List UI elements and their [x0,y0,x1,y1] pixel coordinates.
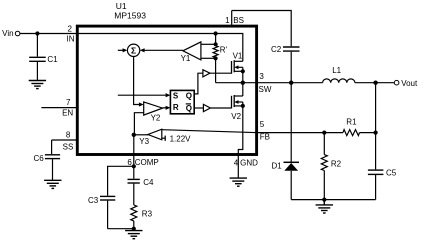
svg-text:C1: C1 [47,55,58,64]
pin 8 SS [52,130,77,154]
svg-text:S: S [173,91,179,100]
wire R' bottom down to SW rail [215,58,217,83]
node junction Y3 output/COMP [132,133,136,137]
wire Vin to IN pin [20,33,77,35]
node junction IN/R' [214,31,218,35]
wire summer output to Y2 [134,57,139,105]
svg-text:3: 3 [259,72,264,81]
op-amp Y1 [181,42,201,63]
wire V1 source to SW [242,67,244,82]
svg-text:SW: SW [259,85,272,94]
capacitor C6 [34,154,61,180]
wire ramp stub into summer [118,49,124,51]
capacitor C2 [271,45,300,83]
svg-text:Y1: Y1 [181,54,191,63]
pin 7 EN [41,98,77,118]
wire Y3 output [134,134,148,136]
svg-text:V2: V2 [231,112,241,121]
wire Y1 input top [201,43,216,45]
flip-flop U1 latch [170,90,194,113]
pin 3 SW [259,72,272,94]
resistor R' [213,46,227,58]
buffer V2 gate driver [203,104,210,111]
node junction V1 source [241,69,245,73]
inductor L1 [323,66,355,83]
svg-text:MP1593: MP1593 [114,10,146,20]
wire Y2 bottom input from Y3 [134,113,143,135]
wire V2 drain to SW [242,83,244,96]
svg-text:C5: C5 [386,168,397,177]
svg-text:4: 4 [234,158,239,167]
wire driver to V1 gate [210,72,232,74]
wire IN rail inside box to V1 drain [78,34,243,62]
wire V2 source to GND pin [238,102,243,178]
wire S input of flip-flop [118,94,166,96]
node junction SW internal [241,81,245,85]
svg-text:C4: C4 [143,178,154,187]
op-amp Y2 [144,102,163,122]
node junction R3/C3 bottom [132,227,136,231]
svg-text:COMP: COMP [135,158,159,167]
svg-text:C3: C3 [88,196,99,205]
svg-text:IN: IN [67,35,75,44]
svg-text:R3: R3 [142,210,153,219]
svg-text:V1: V1 [233,51,243,60]
svg-text:R: R [173,103,179,112]
svg-text:1: 1 [225,16,230,25]
svg-text:EN: EN [62,109,73,118]
wire internal SW rail [216,82,256,84]
svg-text:Σ: Σ [131,45,136,55]
node junction SW/C2/D1 [289,81,293,85]
wire 1.22V reference [162,135,191,144]
wire COMP to C3 branch [108,166,134,195]
svg-text:FB: FB [260,133,270,142]
wire Y2 output to R input [163,107,166,109]
node junction V2 source [241,104,245,108]
wire Q-bar output to V2 driver [194,107,203,109]
svg-text:Vin: Vin [2,29,13,38]
svg-text:C6: C6 [34,154,45,163]
capacitor C1 [29,34,58,81]
svg-text:Vout: Vout [401,79,418,88]
svg-text:Q: Q [186,104,192,113]
op-amp U1 box MP1593 [77,1,256,155]
pin 5 FB [260,120,270,142]
ground (output rail) [316,200,333,213]
node summing junction [127,44,139,56]
pin 1 BS [225,11,244,27]
wire FB pin to R1 [256,132,343,134]
svg-text:L1: L1 [332,66,341,75]
node junction R1/C5 [374,131,378,135]
svg-text:SS: SS [63,143,74,152]
node junction ground rail [322,198,326,202]
pin 4 GND [234,158,258,167]
svg-text:R': R' [220,46,228,55]
node junction Vout [373,81,377,85]
wire COMP vertical [133,135,135,167]
wire IN to R' [215,34,217,46]
wire C3 bottom to COMP ground [108,228,134,230]
node junction COMP [132,164,136,168]
wire L1 to Vout [355,82,395,84]
svg-text:R2: R2 [331,159,342,168]
wire Y1 output to summer [144,49,183,51]
node junction R' top / Y1 input [214,42,218,46]
wire output ground rail [291,199,375,201]
transistor V1 [232,51,243,73]
capacitor C3 [88,196,115,229]
svg-text:R1: R1 [346,117,357,126]
svg-text:1.22V: 1.22V [170,135,192,144]
wire R1 to Vout node [360,132,376,134]
wire Q output to V1 driver [194,73,203,94]
pin 6 COMP [127,158,158,167]
svg-text:BS: BS [233,16,244,25]
node Vout terminal [394,79,418,88]
resistor R2 [321,133,341,200]
node junction R' bottom / Y1 input [214,56,218,60]
wire driver to V2 gate [210,107,231,109]
buffer V1 gate driver [203,70,210,77]
svg-text:5: 5 [260,120,265,129]
capacitor C5 [368,133,397,200]
resistor R1 [343,117,360,135]
svg-text:7: 7 [66,98,71,107]
wire FB internal to Y3 [162,130,257,133]
pin 2 IN label [67,24,75,43]
svg-text:Q: Q [186,91,192,100]
transistor V2 [231,95,243,121]
svg-text:GND: GND [240,158,258,167]
svg-text:2: 2 [68,24,73,33]
node junction Vin/C1 [35,31,39,35]
wire SW pin to L1 [256,82,323,84]
svg-text:D1: D1 [272,161,283,170]
wire Vout down to FB divider [375,83,377,133]
ground (GND pin) [230,178,247,186]
op-amp Y3 [139,129,162,146]
wire BS to C2 top [232,11,292,47]
ground (C1) [29,81,46,89]
resistor R3 [131,205,153,229]
capacitor C4 [128,166,154,205]
ground (COMP network) [125,229,142,239]
node junction FB/R2 [322,131,326,135]
ground (C6) [44,180,61,188]
diode D1 [272,83,300,200]
svg-text:Y3: Y3 [139,137,149,146]
svg-text:8: 8 [66,130,71,139]
svg-text:Y2: Y2 [151,113,161,122]
wire Y1 input bottom [201,57,216,59]
svg-text:C2: C2 [271,45,282,54]
node Vin terminal [2,29,20,38]
